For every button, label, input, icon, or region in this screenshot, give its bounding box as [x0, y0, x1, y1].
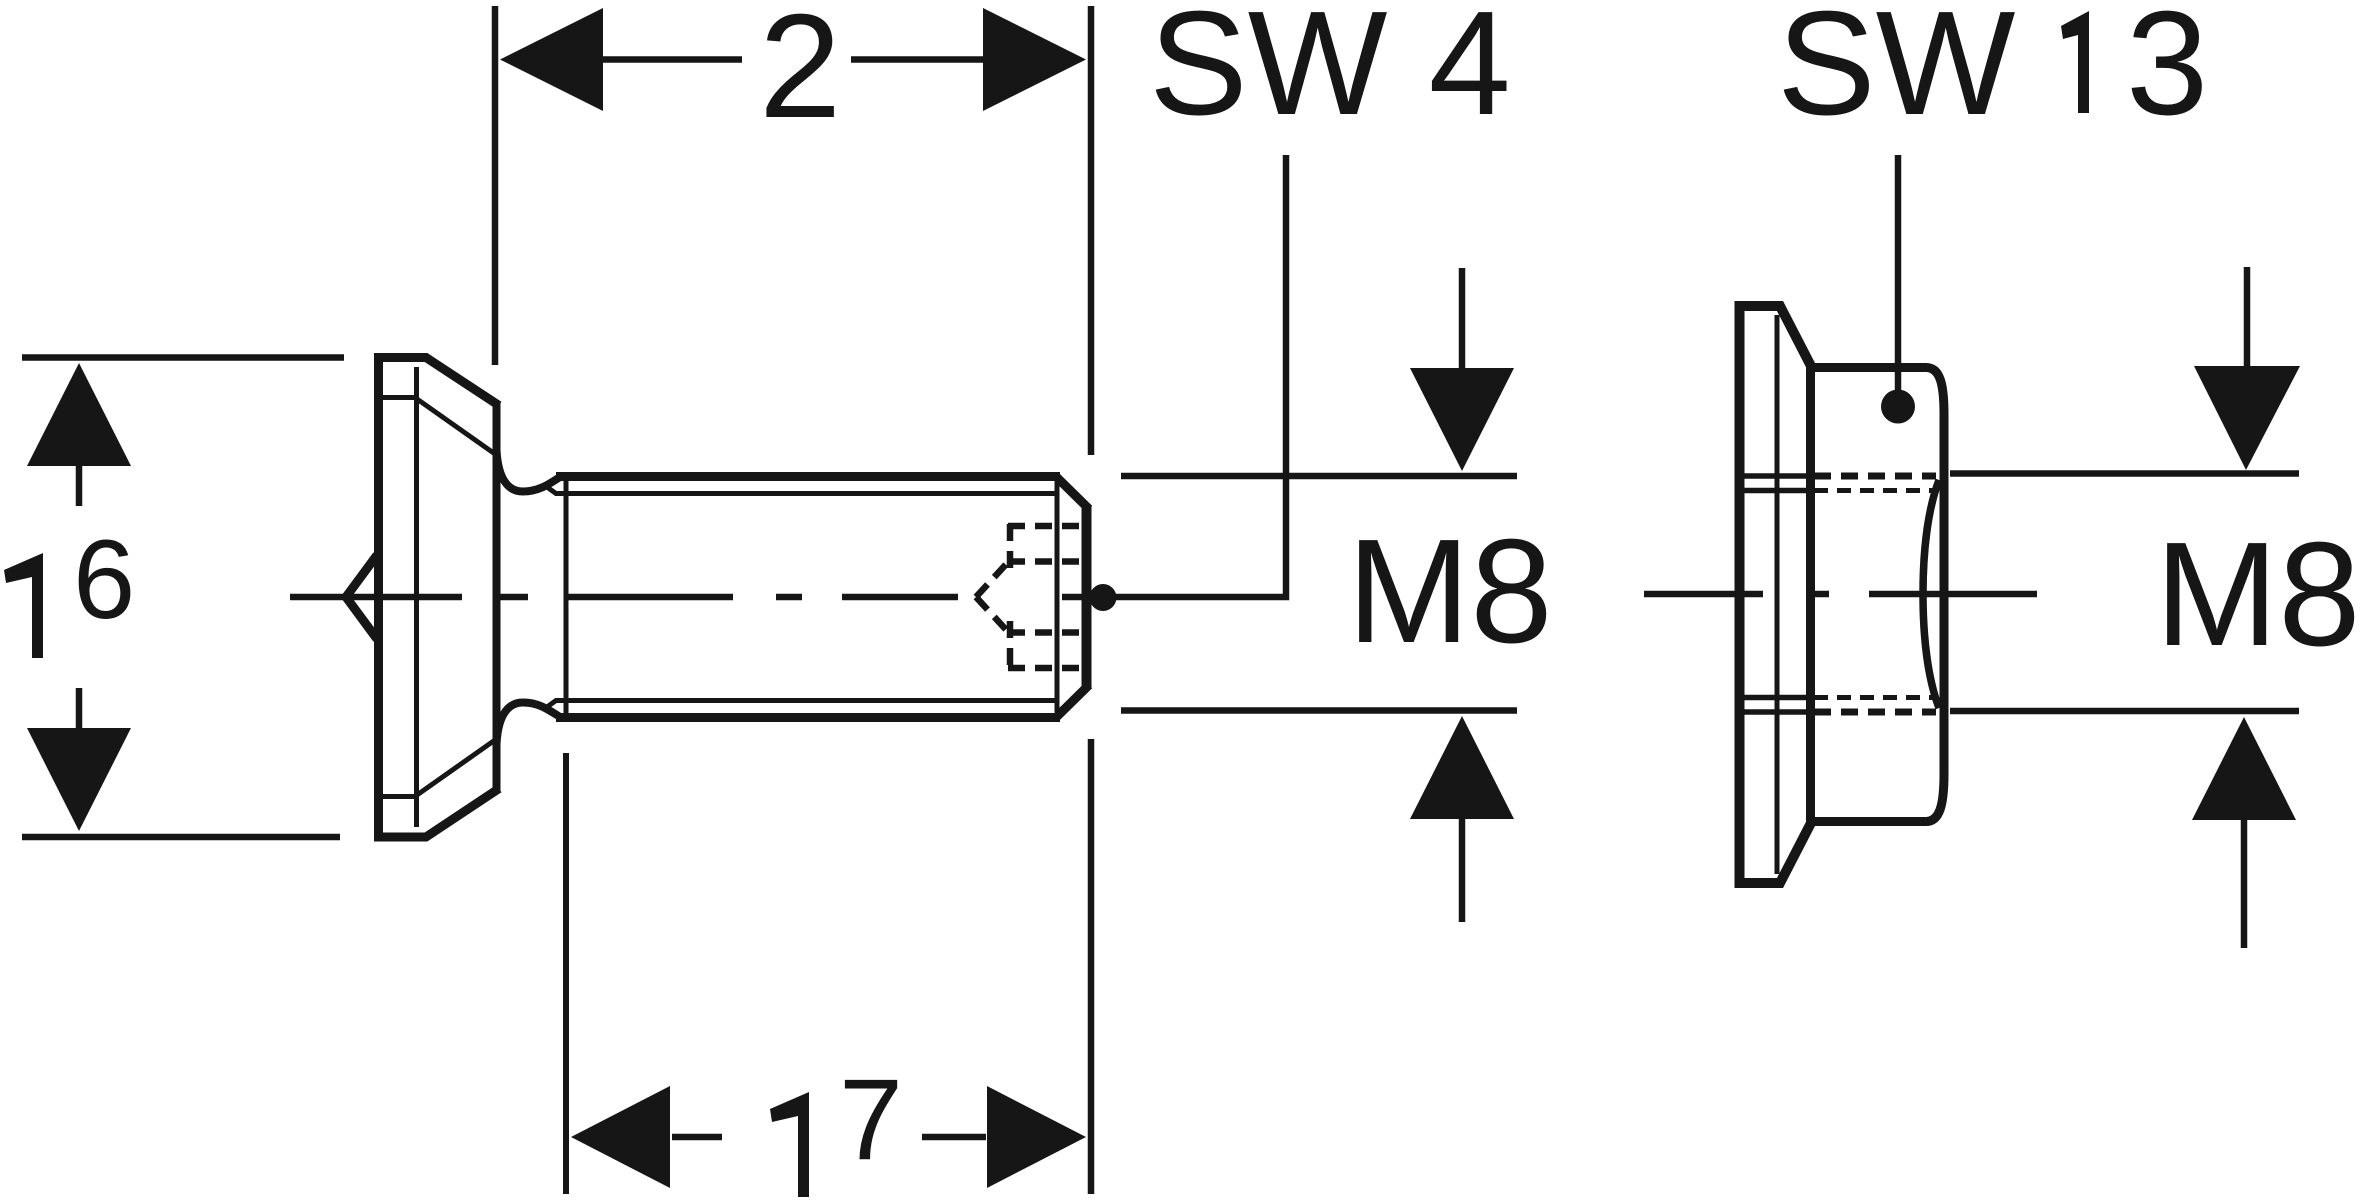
dimension 16 arrows — [27, 363, 131, 466]
nut flange inner line — [1775, 315, 1780, 874]
svg-text:7: 7 — [839, 1056, 903, 1184]
center line of bolt — [290, 594, 1084, 601]
nut hidden thread lines — [1814, 473, 1936, 480]
thread minor line top — [547, 487, 1056, 494]
neck fillet top — [497, 450, 561, 492]
bolt head center tip — [346, 555, 377, 639]
thread minor line bottom — [547, 701, 1056, 708]
hex socket hidden lines — [976, 524, 1086, 670]
svg-text:3: 3 — [2126, 0, 2208, 146]
head rim line top — [381, 395, 417, 400]
head inner face line — [414, 367, 419, 827]
cone inner slant top — [417, 399, 495, 454]
tip chamfer top — [1057, 478, 1089, 510]
dimension 16: extension lines — [22, 354, 344, 361]
tip chamfer circle vertical — [1055, 482, 1060, 712]
M8 nut: extension lines — [1950, 470, 2299, 477]
svg-text:M8: M8 — [2155, 512, 2361, 677]
thread start vertical — [564, 481, 569, 713]
neck fillet bottom — [497, 703, 561, 745]
dimension 2: extension lines — [492, 6, 499, 365]
SW4 leader line — [1114, 155, 1286, 597]
M8 nut arrows — [2244, 267, 2251, 366]
svg-text:SW 4: SW 4 — [1149, 0, 1511, 146]
head cone base vertical — [493, 402, 501, 792]
svg-text:SW: SW — [1777, 0, 2016, 146]
nut facet arc — [1923, 480, 1939, 708]
nut flange outline — [1740, 306, 1813, 883]
nut center line — [1644, 591, 2037, 598]
M8 bolt: extension lines — [1121, 473, 1517, 480]
bolt head outline — [379, 358, 500, 838]
head rim line bottom — [381, 794, 417, 799]
shank top edge — [556, 472, 1060, 481]
dimension 17: extension line left — [563, 753, 569, 1194]
SW4 leader dot — [1090, 584, 1117, 611]
label 1 (17) — [770, 1092, 809, 1197]
dimension 17: extension line right (lower part of x=1091) — [1088, 739, 1095, 1194]
nut hex outline — [1810, 368, 1944, 822]
svg-text:M8: M8 — [1347, 509, 1553, 674]
SW13 leader — [1895, 155, 1902, 392]
cone inner slant bottom — [417, 740, 495, 795]
svg-text:2: 2 — [759, 0, 841, 149]
nut flange thread lines — [1744, 476, 1808, 712]
dimension 17: line and arrows — [672, 1134, 722, 1141]
dimension 2: line and arrows — [598, 56, 742, 63]
tip face — [1082, 506, 1092, 688]
label 1 (16) — [4, 553, 43, 658]
shank bottom edge — [556, 713, 1060, 722]
nut hex left edge — [1806, 364, 1815, 826]
tip chamfer bottom — [1057, 685, 1089, 717]
svg-text:6: 6 — [73, 517, 135, 642]
M8 bolt arrows — [1459, 268, 1466, 368]
